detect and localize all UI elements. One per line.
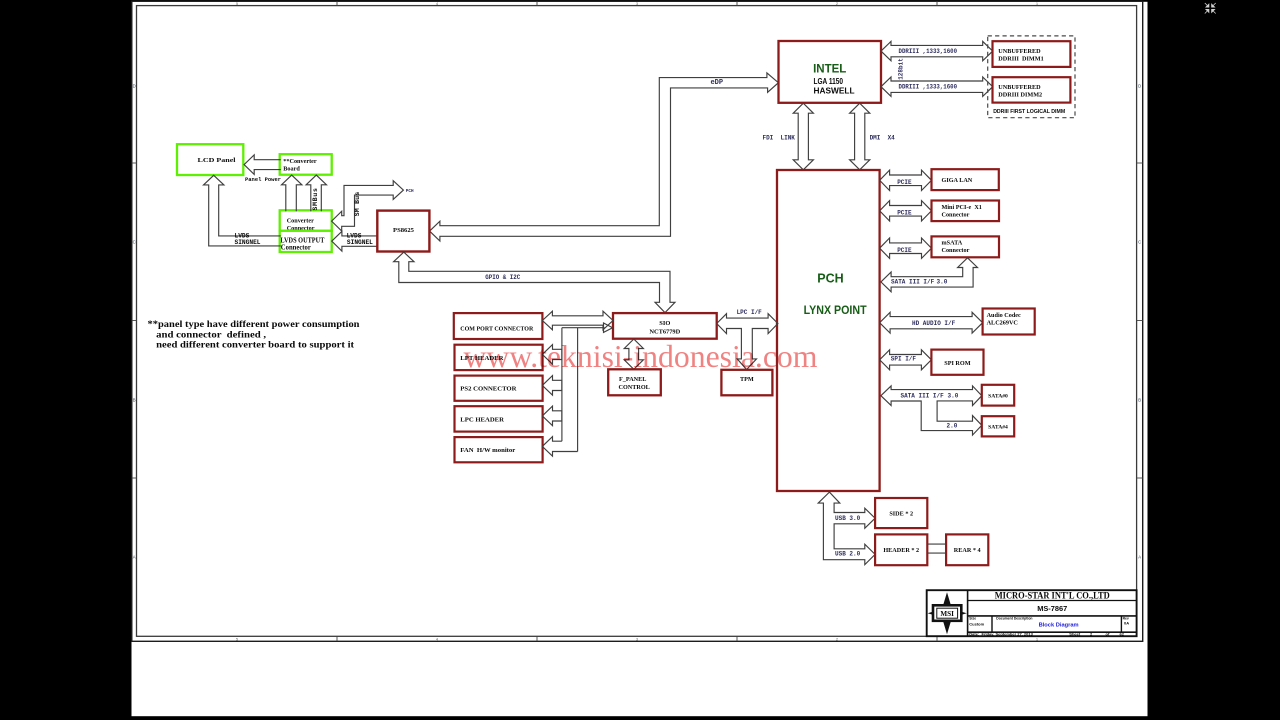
svg-text:SIDE * 2: SIDE * 2 bbox=[889, 510, 913, 517]
arrow into PS2 CONNECTOR bbox=[542, 376, 562, 396]
wire HEADER to REAR lower bbox=[927, 552, 946, 554]
zone ticks top border bbox=[336, 1, 338, 5]
svg-text:CONTROL: CONTROL bbox=[619, 384, 650, 391]
svg-text:PCH: PCH bbox=[817, 271, 843, 285]
svg-text:need different converter board: need different converter board to suppor… bbox=[156, 341, 355, 351]
wire GPIO and I2C trace from PS8625 to SIO bbox=[394, 252, 675, 313]
svg-text:HASWELL: HASWELL bbox=[814, 86, 855, 96]
svg-text:PCIE: PCIE bbox=[897, 247, 912, 254]
svg-text:LPC I/F: LPC I/F bbox=[737, 309, 763, 316]
title block divider rev bbox=[1120, 616, 1122, 632]
wire HEADER to REAR upper bbox=[927, 543, 946, 545]
flash U5 SPI ROM bbox=[931, 350, 983, 375]
lan U3 GIGA LAN bbox=[932, 169, 999, 190]
svg-text:2: 2 bbox=[836, 638, 838, 642]
svg-text:MICRO-STAR INT'L CO.,LTD: MICRO-STAR INT'L CO.,LTD bbox=[995, 591, 1110, 602]
connector J8 USB HEADER x2 bbox=[875, 534, 927, 565]
bus arrow DDRIII channel 1 bbox=[881, 41, 993, 60]
svg-text:Document Description: Document Description bbox=[996, 616, 1032, 620]
title block frame bbox=[927, 590, 1137, 636]
wire SIO feed bus vertical 1 bbox=[561, 328, 563, 442]
svg-text:HD AUDIO I/F: HD AUDIO I/F bbox=[912, 320, 956, 327]
svg-text:FAN H/W monitor: FAN H/W monitor bbox=[460, 447, 515, 454]
memory J2 UNBUFFERED DDRIII DIMM2 bbox=[993, 77, 1071, 102]
svg-text:Converter: Converter bbox=[287, 218, 314, 225]
bridge U6 PS8625 bbox=[377, 211, 429, 252]
wire SATA III fork to SATA0 and SATA4 bbox=[881, 386, 982, 435]
svg-text:SATA III I/F: SATA III I/F bbox=[891, 279, 935, 286]
arrow converter power B bbox=[306, 175, 326, 211]
svg-text:ALC269VC: ALC269VC bbox=[987, 320, 1018, 327]
svg-text:PCIE: PCIE bbox=[897, 210, 912, 217]
title block row line 3 bbox=[968, 631, 1137, 633]
svg-text:DDRIII DIMM1: DDRIII DIMM1 bbox=[998, 56, 1043, 63]
svg-text:DDRIII FIRST LOGICAL DIMM: DDRIII FIRST LOGICAL DIMM bbox=[993, 109, 1065, 115]
svg-text:COM PORT CONNECTOR: COM PORT CONNECTOR bbox=[460, 325, 533, 332]
wire eDP trace from PS8625 to INTEL bbox=[430, 73, 779, 241]
arrow LVDS SINGNEL from PS8625 to LVDS OUTPUT bbox=[332, 231, 377, 251]
svg-text:SATA#0: SATA#0 bbox=[988, 394, 1008, 400]
svg-text:UNBUFFERED: UNBUFFERED bbox=[998, 84, 1041, 91]
wire USB trace from PCH bottom to SIDE and HEADER bbox=[818, 492, 875, 564]
connector J12 Converter Connector bbox=[280, 210, 332, 231]
svg-text:3: 3 bbox=[636, 2, 638, 6]
svg-text:0A: 0A bbox=[1124, 620, 1129, 625]
MSI logo star bbox=[941, 592, 954, 634]
svg-text:128bit: 128bit bbox=[898, 58, 905, 80]
page outer border bbox=[132, 1, 1143, 641]
svg-text:SM Bus: SM Bus bbox=[354, 191, 361, 216]
svg-text:DMI X4: DMI X4 bbox=[870, 135, 896, 142]
board J11 Converter Board bbox=[280, 154, 332, 175]
memory J1 UNBUFFERED DDRIII DIMM1 bbox=[993, 41, 1071, 67]
connector J5 SATA#0 bbox=[982, 385, 1014, 406]
wire SIO feed horizontal bbox=[562, 327, 605, 329]
svg-text:NCT6779D: NCT6779D bbox=[649, 328, 680, 335]
svg-text:SPI I/F: SPI I/F bbox=[891, 355, 917, 362]
arrowhead into SIO bbox=[604, 323, 613, 332]
bus arrow PCIE to GIGA LAN bbox=[880, 170, 932, 190]
svg-text:Connector: Connector bbox=[942, 211, 970, 218]
arrow into LPC HEADER bbox=[542, 406, 562, 426]
svg-text:4: 4 bbox=[436, 638, 438, 642]
title block row line 2 bbox=[968, 615, 1137, 617]
wire SM Bus Z-trace from Converter Connector to PCH arrow bbox=[332, 181, 404, 231]
codec U4 Audio Codec ALC269VC bbox=[983, 309, 1035, 335]
svg-text:Date: Friday, September 27, 2: Date: Friday, September 27, 2013 bbox=[969, 632, 1033, 637]
connector J15 LPT HEADER bbox=[455, 345, 543, 370]
svg-text:GPIO & I2C: GPIO & I2C bbox=[485, 274, 520, 281]
tpm U8 TPM bbox=[721, 370, 772, 396]
svg-text:PS8625: PS8625 bbox=[393, 227, 415, 234]
wire SIO feed bus vertical 2 bbox=[577, 328, 579, 452]
svg-text:1: 1 bbox=[1036, 2, 1038, 6]
svg-text:4: 4 bbox=[436, 2, 438, 6]
svg-text:**panel type have different po: **panel type have different power consum… bbox=[148, 320, 361, 330]
svg-text:www.teknisi-indonesia.com: www.teknisi-indonesia.com bbox=[464, 339, 818, 374]
svg-text:HEADER * 2: HEADER * 2 bbox=[883, 547, 919, 554]
svg-text:C: C bbox=[133, 240, 136, 245]
chipset U2 PCH LYNX POINT bbox=[777, 170, 880, 491]
svg-text:Connector: Connector bbox=[281, 244, 311, 252]
svg-text:Sheet: Sheet bbox=[1069, 632, 1081, 637]
connector J3 Mini PCI-e X1 bbox=[932, 201, 1000, 222]
svg-text:2: 2 bbox=[836, 2, 838, 6]
svg-text:1: 1 bbox=[1036, 638, 1038, 642]
svg-text:Block Diagram: Block Diagram bbox=[1039, 623, 1079, 629]
connector J7 USB SIDE x2 bbox=[875, 498, 927, 528]
bus arrow PCIE to Mini PCI-e bbox=[880, 201, 932, 221]
svg-text:Connector: Connector bbox=[942, 247, 970, 254]
svg-text:DDRIII ,1333,1600: DDRIII ,1333,1600 bbox=[899, 83, 958, 90]
wire SATA III to mSATA trace bbox=[881, 258, 978, 292]
svg-text:LYNX POINT: LYNX POINT bbox=[804, 303, 868, 317]
svg-text:SATA III I/F: SATA III I/F bbox=[901, 392, 945, 399]
svg-text:SMBus: SMBus bbox=[312, 187, 319, 210]
svg-text:and connector defined ,: and connector defined , bbox=[156, 330, 266, 340]
title block row line 1 bbox=[968, 600, 1137, 602]
zone ticks left border bbox=[132, 162, 137, 164]
superio U7 SIO NCT6779D bbox=[613, 313, 717, 339]
bus arrow DDRIII channel 2 bbox=[881, 77, 993, 96]
svg-text:5: 5 bbox=[236, 2, 238, 6]
MSI logo center box bbox=[933, 605, 961, 621]
zone ticks bottom border bbox=[336, 636, 338, 641]
bus arrow COM PORT to SIO bbox=[542, 311, 613, 330]
svg-text:Size: Size bbox=[969, 616, 976, 620]
svg-text:SINGNEL: SINGNEL bbox=[235, 239, 261, 246]
svg-text:3.0: 3.0 bbox=[948, 392, 959, 399]
connector J13 LVDS OUTPUT Connector bbox=[280, 231, 332, 252]
connector J16 PS2 CONNECTOR bbox=[455, 376, 543, 401]
svg-text:of: of bbox=[1106, 632, 1110, 637]
svg-text:INTEL: INTEL bbox=[813, 64, 846, 76]
connector J6 SATA#4 bbox=[982, 416, 1014, 436]
connector J17 LPC HEADER bbox=[455, 406, 543, 431]
svg-text:B: B bbox=[1138, 398, 1141, 403]
svg-text:PCH: PCH bbox=[406, 189, 414, 194]
wire LVDS trace to LCD bottom bbox=[204, 175, 281, 246]
svg-text:eDP: eDP bbox=[710, 79, 723, 87]
svg-text:C: C bbox=[1138, 240, 1141, 245]
svg-text:A: A bbox=[133, 555, 136, 560]
svg-text:LCD Panel: LCD Panel bbox=[198, 157, 236, 164]
bus arrow DMI X4 bbox=[850, 103, 870, 170]
svg-text:PS2 CONNECTOR: PS2 CONNECTOR bbox=[460, 386, 516, 393]
processor U1 INTEL LGA1150 HASWELL bbox=[779, 41, 882, 103]
sheet inner frame bbox=[137, 6, 1137, 637]
svg-text:FDI LINK: FDI LINK bbox=[762, 135, 795, 142]
panel J10 LCD Panel bbox=[177, 144, 243, 175]
svg-text:SINGNEL: SINGNEL bbox=[347, 239, 373, 246]
svg-text:Panel Power: Panel Power bbox=[245, 176, 281, 183]
svg-text:MSI: MSI bbox=[940, 610, 954, 618]
svg-text:SATA#4: SATA#4 bbox=[988, 425, 1008, 431]
svg-text:mSATA: mSATA bbox=[942, 240, 963, 247]
svg-text:3.0: 3.0 bbox=[937, 279, 948, 286]
svg-text:Board: Board bbox=[283, 166, 300, 173]
svg-text:GIGA LAN: GIGA LAN bbox=[942, 177, 973, 184]
svg-text:MS-7867: MS-7867 bbox=[1037, 604, 1067, 613]
white schematic page bbox=[132, 2, 1148, 716]
svg-text:USB 3.0: USB 3.0 bbox=[835, 515, 861, 522]
svg-text:**Converter: **Converter bbox=[283, 158, 317, 165]
svg-text:Custom: Custom bbox=[969, 621, 984, 626]
svg-text:3: 3 bbox=[636, 638, 638, 642]
bus arrow SIO to F_PANEL bbox=[624, 339, 643, 369]
svg-text:5: 5 bbox=[236, 638, 238, 642]
svg-text:Audio Codec: Audio Codec bbox=[987, 312, 1021, 319]
svg-text:SIO: SIO bbox=[659, 320, 670, 327]
bus arrow PCIE to mSATA bbox=[880, 238, 932, 258]
svg-text:REAR * 4: REAR * 4 bbox=[954, 547, 981, 554]
svg-text:DDRIII ,1333,1600: DDRIII ,1333,1600 bbox=[899, 48, 958, 55]
title block divider size/desc bbox=[991, 616, 993, 632]
svg-text:DDRIII DIMM2: DDRIII DIMM2 bbox=[998, 92, 1042, 99]
svg-text:LPC HEADER: LPC HEADER bbox=[460, 416, 504, 423]
bus arrow FDI LINK bbox=[793, 103, 813, 170]
connector J14 COM PORT CONNECTOR bbox=[454, 313, 543, 339]
svg-text:A: A bbox=[1138, 555, 1141, 560]
arrow into LPT HEADER bbox=[542, 345, 562, 365]
arrow into FAN monitor bbox=[542, 437, 577, 457]
connector J9 USB REAR x4 bbox=[946, 534, 988, 565]
svg-text:D: D bbox=[133, 84, 136, 89]
control J19 F_PANEL CONTROL bbox=[608, 369, 661, 395]
bus arrow SPI I/F bbox=[880, 350, 932, 370]
bus arrow HD AUDIO I/F bbox=[880, 312, 983, 333]
svg-text:F_PANEL: F_PANEL bbox=[619, 376, 646, 383]
arrow Panel Power from Converter Board to LCD bbox=[244, 155, 281, 175]
svg-text:D: D bbox=[1138, 84, 1141, 89]
svg-text:TPM: TPM bbox=[740, 376, 754, 383]
bus arrow LPC I/F with TPM branch bbox=[717, 314, 778, 370]
viewer fullscreen icon bbox=[1205, 3, 1216, 14]
svg-text:Mini PCI-e X1: Mini PCI-e X1 bbox=[942, 204, 982, 211]
svg-text:SPI ROM: SPI ROM bbox=[944, 360, 970, 367]
svg-text:UNBUFFERED: UNBUFFERED bbox=[998, 48, 1041, 55]
svg-text:62: 62 bbox=[1120, 632, 1125, 637]
svg-text:PCIE: PCIE bbox=[897, 179, 912, 186]
connector J4 mSATA bbox=[932, 236, 1000, 257]
title block logo cell divider bbox=[967, 590, 969, 636]
zone ticks right border bbox=[1137, 162, 1143, 164]
svg-text:2.0: 2.0 bbox=[947, 422, 958, 429]
dashed group DDRIII first logical DIMM bbox=[988, 36, 1075, 118]
svg-text:USB 2.0: USB 2.0 bbox=[835, 551, 861, 558]
svg-text:B: B bbox=[133, 398, 136, 403]
arrow converter power A bbox=[282, 175, 302, 211]
connector J18 FAN H/W monitor bbox=[455, 437, 543, 462]
